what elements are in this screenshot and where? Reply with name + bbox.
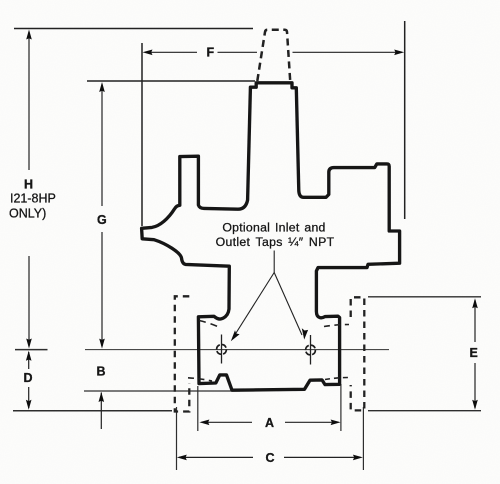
dimension C line: [179, 456, 361, 458]
dimension H line: [28, 32, 30, 346]
svg-text:H: H: [24, 178, 33, 192]
G arrowheads: [99, 82, 105, 92]
hidden socket line bottom-left (dashed): [188, 378, 212, 381]
right flange (dashed): [351, 297, 365, 410]
svg-text:ONLY): ONLY): [9, 207, 46, 221]
svg-text:I21-8HP: I21-8HP: [10, 192, 56, 206]
dimension B arrow: [100, 393, 102, 430]
C right extension line: [362, 407, 364, 470]
svg-text:B: B: [97, 365, 106, 379]
svg-text:E: E: [470, 346, 478, 360]
C left extension line: [176, 407, 178, 470]
hidden socket line bottom-right (dashed): [325, 378, 349, 380]
adjusting screw cap (dashed): [257, 30, 290, 81]
left tap crosshair: [221, 335, 223, 364]
E top extension line: [368, 296, 481, 298]
svg-text:Optional Inlet and: Optional Inlet and: [222, 221, 325, 235]
svg-text:G: G: [97, 213, 107, 227]
svg-text:A: A: [265, 416, 274, 430]
dimension D arrows: [28, 352, 30, 408]
hidden socket line top-right (dashed): [324, 325, 349, 327]
svg-text:C: C: [266, 451, 275, 465]
pipe centerline: [85, 349, 389, 351]
A left extension line: [197, 386, 199, 431]
valve body outline: [142, 83, 400, 390]
extension line top of cap (H datum): [14, 28, 253, 30]
extension line top of bonnet (G datum): [87, 80, 255, 82]
right tap crosshair: [310, 335, 312, 365]
leader arrowhead left: [231, 330, 240, 341]
F right extension line: [404, 21, 406, 219]
dimension A line: [202, 421, 339, 423]
D bottom extension line: [13, 410, 172, 412]
dimension F line: [145, 51, 402, 53]
H arrowheads: [26, 30, 32, 40]
left tap circle: [217, 345, 227, 355]
svg-text:Outlet Taps ¼″ NPT: Outlet Taps ¼″ NPT: [216, 235, 335, 249]
taps leader line: [234, 251, 303, 338]
hidden socket line top-left (dashed): [199, 321, 220, 328]
leader arrowhead right: [302, 328, 308, 339]
B extension line (pipe bottom): [84, 390, 240, 392]
svg-text:D: D: [24, 371, 33, 385]
centerline tick at H/D: [15, 349, 48, 351]
dimension E line: [474, 300, 476, 408]
F arrowheads: [143, 50, 153, 56]
E bottom extension line: [368, 410, 481, 412]
A right extension line: [340, 384, 342, 431]
F left extension line: [141, 43, 143, 226]
left flange (dashed): [175, 296, 190, 411]
svg-text:F: F: [207, 46, 215, 60]
dimension G line: [101, 85, 103, 347]
right tap circle: [306, 345, 316, 355]
